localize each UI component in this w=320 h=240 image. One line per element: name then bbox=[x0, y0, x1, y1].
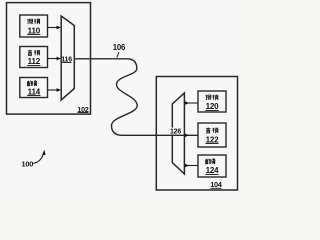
box 114 (haptic source) bbox=[20, 78, 48, 98]
wire 126 to 120 bbox=[184, 102, 198, 104]
demux 126 trapezoid bbox=[172, 93, 184, 174]
svg-text:104: 104 bbox=[210, 180, 223, 189]
box 120 (video sink) bbox=[198, 91, 226, 112]
box 124 (haptic sink) bbox=[198, 155, 226, 177]
svg-text:120: 120 bbox=[206, 102, 219, 111]
box 110 (video source) bbox=[20, 15, 48, 37]
svg-text:124: 124 bbox=[206, 166, 219, 175]
svg-text:126: 126 bbox=[170, 129, 181, 136]
wire 114 to 116 bbox=[48, 89, 58, 91]
wire 110 to 116 bbox=[48, 27, 58, 29]
label 音频 (122) bbox=[206, 127, 218, 133]
label 触觉 (124) bbox=[206, 158, 216, 164]
label 触觉 (114) bbox=[27, 80, 37, 86]
label 116 bbox=[62, 56, 72, 64]
svg-text:112: 112 bbox=[28, 57, 41, 66]
box 122 (audio sink) bbox=[198, 123, 226, 147]
box 102 (first device outer box) bbox=[7, 3, 91, 115]
label 126 bbox=[171, 128, 180, 135]
mux 116 trapezoid bbox=[61, 16, 74, 100]
label 音频 (112) bbox=[28, 50, 40, 56]
wire 112 to 116 bbox=[48, 58, 58, 60]
leader line for 106 bbox=[117, 52, 119, 57]
box 112 (audio source) bbox=[20, 47, 48, 68]
box 104 (second device outer box) bbox=[156, 77, 237, 191]
svg-text:106: 106 bbox=[113, 43, 126, 52]
wire 126 to 124 bbox=[184, 165, 198, 167]
wire arrowhead 126 to 122 bbox=[185, 133, 189, 137]
leader arrow for 100 bbox=[33, 154, 44, 164]
label 视频 (110) bbox=[27, 19, 40, 24]
wire 116 to 126 (network squiggle) bbox=[74, 59, 198, 136]
svg-text:100: 100 bbox=[22, 159, 34, 168]
label 视频 (120) bbox=[206, 95, 219, 100]
